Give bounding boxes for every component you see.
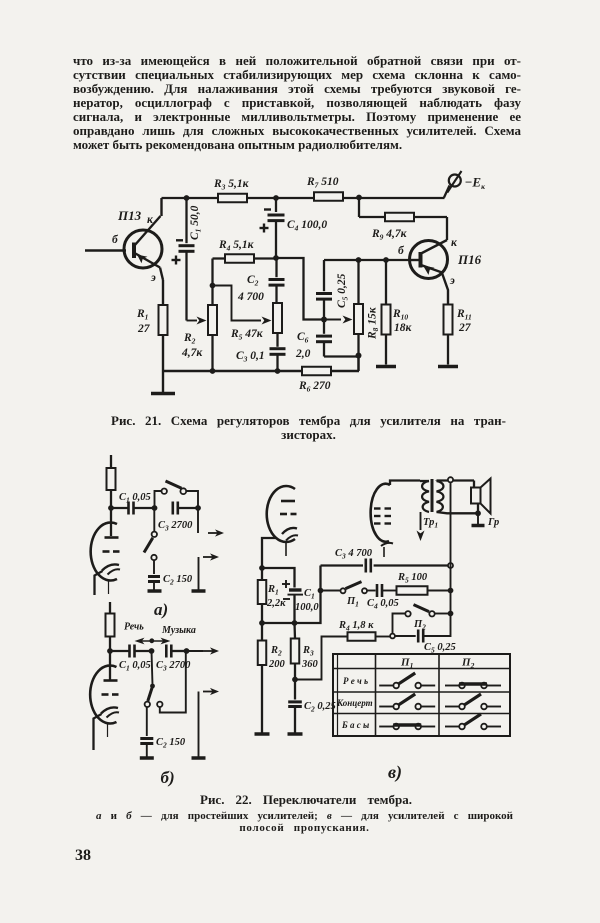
svg-text:18к: 18к	[394, 322, 413, 334]
svg-text:C6: C6	[297, 331, 309, 345]
svg-text:R4 1,8 к: R4 1,8 к	[338, 620, 374, 633]
wire feedback vertical	[450, 566, 452, 614]
capacitor C1 50,0	[172, 198, 203, 321]
capacitor C1 100,0 (fig22v)	[262, 568, 319, 623]
svg-text:э: э	[449, 275, 455, 287]
switch cell П2-Речь	[445, 683, 501, 689]
svg-text:R3: R3	[302, 645, 314, 658]
resistor R7 510	[306, 176, 343, 201]
resistor R11 27	[444, 305, 472, 365]
fig22a anode resistor	[107, 455, 116, 508]
wire bottom rail	[163, 370, 302, 372]
potentiometer R8 15k	[354, 260, 380, 371]
resistor R2 200 (fig22v)	[258, 623, 286, 733]
capacitor C2 150 (fig22a)	[148, 560, 193, 589]
wire C1 to R2 wiper	[187, 317, 207, 325]
resistor R1 2,2k (fig22v)	[258, 568, 286, 623]
switch П1	[321, 582, 376, 609]
svg-text:R11: R11	[456, 308, 472, 322]
potentiometer R5 47k	[230, 303, 282, 347]
node (bus left)	[259, 620, 265, 626]
resistor R6 270	[298, 356, 359, 394]
node (switch tap right)	[195, 505, 201, 511]
speaker Гр	[471, 479, 499, 529]
capacitor C3 0,1	[236, 349, 286, 371]
node (R4/П2/C5 junction)	[390, 634, 395, 639]
fig22b anode resistor	[106, 602, 115, 651]
node (feedback tap C3)	[448, 563, 453, 568]
svg-text:R1: R1	[267, 584, 279, 597]
node (C3 bottom)	[275, 368, 281, 374]
node R2 top junction	[210, 283, 216, 289]
switch П2	[393, 605, 451, 633]
wire node to R8 wiper	[324, 316, 353, 324]
svg-text:R10: R10	[392, 308, 408, 322]
svg-text:R7 510: R7 510	[306, 176, 339, 190]
ground (R2)	[255, 732, 270, 736]
svg-text:Музыка: Музыка	[161, 625, 196, 636]
svg-text:Гр: Гр	[487, 517, 499, 528]
capacitor C1 0,05 (fig22b)	[110, 645, 152, 673]
wire C6 to R8 bottom	[324, 355, 359, 357]
svg-text:б): б)	[161, 768, 175, 787]
svg-text:C1: C1	[304, 588, 315, 601]
node (bus C1)	[292, 620, 298, 626]
node (fig22b output node)	[184, 648, 190, 654]
node (R10 rail)	[383, 257, 389, 263]
svg-text:C3 0,1: C3 0,1	[236, 350, 265, 364]
ground (C2 fig22a)	[148, 589, 162, 593]
svg-text:4 700: 4 700	[237, 291, 264, 303]
svg-text:R1: R1	[136, 308, 148, 322]
capacitor C5 0,25 (fig22v)	[395, 614, 456, 655]
labels Речь / Музыка with arrows	[124, 622, 196, 645]
node (feedback tap secondary)	[448, 477, 453, 482]
svg-text:C3 2700: C3 2700	[158, 520, 193, 533]
svg-text:C4 0,05: C4 0,05	[367, 598, 399, 611]
resistor R4 1,8k (fig22v)	[296, 620, 391, 680]
svg-text:27: 27	[458, 322, 472, 334]
svg-text:C3 4 700: C3 4 700	[335, 548, 373, 561]
potentiometer R2 4,7k	[181, 259, 217, 372]
svg-text:э: э	[150, 272, 156, 284]
terminal -Ek	[444, 171, 485, 198]
switch position table	[333, 654, 510, 736]
node (switch tap left)	[152, 505, 158, 511]
capacitor C4 100,0	[260, 198, 328, 258]
node D (C5/C6 junction)	[321, 317, 327, 323]
switch cell П1-Басы	[379, 724, 435, 730]
wire output 2 with ground (fig22a)	[192, 553, 220, 591]
fig22v output tube V4	[371, 481, 420, 558]
svg-text:R2: R2	[270, 645, 282, 658]
svg-text:R3 5,1к: R3 5,1к	[213, 178, 250, 192]
svg-text:C4 100,0: C4 100,0	[287, 219, 327, 233]
transistor Q1 П13	[85, 198, 163, 305]
wire R2-junction to R5 wiper	[213, 286, 272, 325]
svg-text:C5 0,25: C5 0,25	[424, 642, 456, 655]
switch S1 (fig22a top)	[155, 481, 199, 508]
capacitor C3 2700 (fig22b)	[156, 645, 191, 673]
capacitor C2 150 (fig22b)	[140, 707, 186, 757]
node (speaker gnd)	[475, 510, 481, 516]
switch cell П2-Басы	[445, 714, 501, 729]
svg-text:100,0: 100,0	[295, 602, 319, 613]
fig22b tube V2	[90, 651, 119, 750]
svg-text:C2 0,25: C2 0,25	[304, 701, 336, 714]
node A (C1/rail junction)	[184, 195, 190, 201]
node (R2 bottom)	[210, 368, 216, 374]
capacitor C1 0,05 (fig22a)	[111, 492, 155, 515]
capacitor C3 4700 (fig22v)	[321, 548, 451, 573]
resistor R1 27	[136, 305, 168, 371]
svg-text:R5 100: R5 100	[397, 572, 428, 585]
node (fig22a anode)	[108, 505, 114, 511]
wire output 1 (fig22a)	[198, 508, 224, 537]
svg-text:П1: П1	[346, 596, 359, 609]
svg-text:C1 50,0: C1 50,0	[189, 205, 203, 240]
ground (speaker)	[472, 513, 485, 525]
svg-text:C1 0,05: C1 0,05	[119, 492, 151, 505]
svg-text:C2 150: C2 150	[163, 574, 193, 587]
wire R4-node to tone node	[276, 258, 324, 320]
node (fig22b anode)	[107, 648, 113, 654]
resistor R3 5,1k	[213, 178, 250, 202]
svg-text:в): в)	[388, 762, 402, 783]
svg-text:R9 4,7к: R9 4,7к	[371, 228, 408, 242]
svg-text:27: 27	[137, 323, 151, 335]
switch cell П2-Концерт	[445, 694, 501, 709]
svg-text:R8 15к: R8 15к	[367, 306, 381, 340]
svg-text:Б а с ы: Б а с ы	[341, 720, 369, 730]
svg-text:C2 150: C2 150	[156, 737, 186, 750]
fig22a tube V1	[91, 508, 120, 595]
svg-text:C5 0,25: C5 0,25	[336, 273, 350, 308]
node (R5 right)	[448, 588, 454, 594]
node C (R7/R9 junction)	[356, 195, 362, 201]
svg-text:б: б	[112, 234, 119, 246]
node (R8 rail)	[356, 257, 362, 263]
svg-text:360: 360	[301, 659, 319, 670]
wire bus (fig22v)	[262, 566, 321, 624]
node (П1 branch)	[318, 588, 324, 594]
switch S2 (fig22a bottom)	[144, 508, 157, 560]
svg-text:П16: П16	[457, 252, 482, 267]
switch S3 (fig22b)	[145, 651, 186, 713]
svg-text:П1: П1	[400, 657, 413, 671]
transformer Tr1	[417, 479, 479, 541]
capacitor C6 2,0	[295, 320, 332, 361]
svg-text:а): а)	[154, 600, 168, 619]
node F (R8 bottom / C6)	[356, 353, 362, 359]
node (fig22b C1/C3)	[149, 648, 155, 654]
capacitor C2 4700	[237, 258, 285, 303]
svg-text:П2: П2	[461, 657, 475, 671]
capacitor C5 0,25	[316, 260, 350, 320]
svg-text:2,0: 2,0	[295, 348, 311, 360]
node B (R3/R7/C4 junction)	[273, 195, 279, 201]
switch cell П1-Концерт	[379, 694, 435, 709]
svg-text:Тр1: Тр1	[423, 517, 438, 530]
svg-text:R6 270: R6 270	[298, 380, 331, 394]
wire top supply rail	[162, 197, 445, 199]
svg-text:Р е ч ь: Р е ч ь	[343, 676, 368, 686]
wire output 2 with ground (fig22b)	[192, 688, 220, 758]
node (fig22v grid node)	[259, 565, 265, 571]
node (П2 right)	[448, 611, 454, 617]
svg-text:б: б	[398, 245, 405, 257]
svg-text:C1 0,05: C1 0,05	[119, 660, 151, 673]
svg-text:R2: R2	[183, 332, 196, 346]
capacitor C4 0,05 (fig22v)	[367, 584, 399, 611]
svg-text:R4 5,1к: R4 5,1к	[218, 239, 255, 253]
wire base rail of П16	[324, 259, 410, 261]
svg-text:П13: П13	[117, 208, 142, 223]
resistor R4 5,1k	[213, 239, 277, 263]
resistor R9 4,7k	[359, 198, 447, 242]
node E (R4/C2/C4 junction)	[273, 255, 279, 261]
wire output arrow (fig22b)	[203, 650, 213, 652]
ground (C2 fig22v)	[288, 732, 303, 736]
capacitor C2 0,25 (fig22v)	[288, 680, 336, 733]
svg-text:к: к	[451, 237, 458, 249]
ground (C2 fig22b)	[140, 756, 154, 760]
ground (R11)	[438, 365, 458, 369]
node (R3 bottom)	[292, 677, 298, 683]
capacitor C3 2700 (fig22a)	[158, 502, 198, 533]
svg-text:−Eк: −Eк	[465, 175, 486, 192]
svg-text:200: 200	[268, 659, 286, 670]
svg-text:Речь: Речь	[124, 622, 144, 633]
svg-text:R5 47к: R5 47к	[230, 328, 264, 342]
ground (emitter of П13)	[151, 371, 175, 394]
svg-text:Концерт: Концерт	[336, 698, 373, 708]
resistor R3 360 (fig22v)	[291, 623, 319, 680]
transistor Q2 П16	[398, 237, 482, 305]
switch cell П1-Речь	[379, 673, 435, 688]
resistor R10 18k	[382, 260, 413, 365]
fig22v tube V3	[262, 486, 298, 568]
svg-text:4,7к: 4,7к	[181, 347, 203, 359]
ground (R10)	[376, 365, 396, 369]
resistor R5 100 (fig22v)	[397, 572, 451, 595]
svg-text:C2: C2	[247, 274, 259, 288]
